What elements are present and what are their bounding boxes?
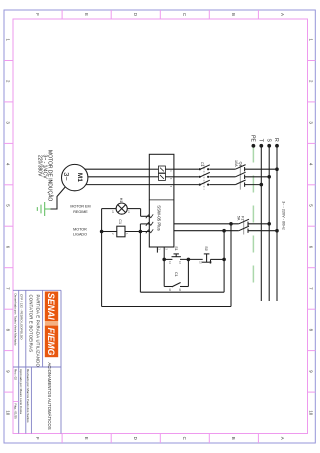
pushbutton S1 (NO): [172, 254, 181, 257]
svg-text:21: 21: [209, 261, 212, 264]
svg-text:E: E: [84, 13, 89, 16]
lamp H1: [116, 203, 127, 214]
digital input terminal mark: [146, 222, 153, 226]
wire phase R through box: [165, 168, 174, 170]
svg-text:C1: C1: [200, 162, 204, 167]
coil C1: [117, 226, 125, 237]
svg-text:3~ - 1/4CV: 3~ - 1/4CV: [42, 155, 48, 180]
svg-text:MOTOR EM: MOTOR EM: [70, 205, 90, 209]
motor M1: [62, 164, 88, 190]
wire F1-S to soft starter supply: [174, 223, 239, 225]
switch F1 pole: [239, 219, 249, 226]
svg-text:3: 3: [309, 121, 314, 124]
ground symbol: [37, 202, 50, 216]
wire S0 to S1: [180, 258, 203, 260]
svg-text:A: A: [280, 13, 285, 16]
svg-text:LIGADO: LIGADO: [73, 233, 87, 237]
SENAI FIEMG logo: [45, 292, 58, 358]
svg-text:6: 6: [5, 246, 10, 249]
wire starter to motor V: [88, 176, 150, 178]
node tap S to F1: [267, 222, 271, 226]
svg-text:22: 22: [198, 261, 201, 264]
svg-text:1: 1: [158, 248, 162, 250]
svg-text:1: 1: [169, 170, 172, 172]
svg-text:SENAI: SENAI: [46, 293, 56, 320]
svg-text:220/380V: 220/380V: [37, 155, 43, 177]
svg-text:13: 13: [178, 261, 181, 264]
svg-text:E: E: [84, 437, 89, 440]
wire Q1 to C1: [209, 184, 235, 186]
svg-text:REGIME: REGIME: [73, 210, 88, 214]
switch F1 linkage: [243, 220, 245, 235]
wire DI1 stub down: [141, 215, 150, 217]
wire starter to motor U: [85, 168, 150, 170]
svg-text:Revisado por: Marcos Paulo dos: Revisado por: Marcos Paulo dos Santos: [26, 369, 30, 423]
svg-text:2: 2: [111, 233, 115, 235]
node start of button branch: [222, 258, 226, 262]
svg-text:9: 9: [5, 370, 10, 373]
pin labels S1: [168, 261, 181, 264]
wire lamp top: [127, 208, 140, 210]
svg-text:10: 10: [5, 410, 10, 415]
svg-text:D: D: [133, 437, 138, 440]
svg-text:3: 3: [169, 178, 172, 180]
wire phase S: [268, 146, 270, 302]
contactor C1 linkage (dashed): [203, 165, 205, 190]
svg-text:6: 6: [309, 246, 314, 249]
wire F1-R to soft starter supply: [174, 230, 239, 232]
wire C1 aux branch bottom: [163, 259, 165, 286]
wire T down to Q1: [245, 184, 262, 186]
svg-text:Pág.: 01/25: Pág.: 01/25: [13, 404, 17, 420]
svg-text:1: 1: [5, 38, 10, 41]
node PE terminal: [252, 144, 256, 148]
svg-text:3~: 3~: [62, 172, 71, 180]
label motor data: [37, 150, 54, 201]
svg-text:10A: 10A: [234, 160, 238, 167]
svg-text:S0: S0: [204, 246, 208, 251]
svg-text:M1: M1: [76, 173, 83, 182]
contact C1 auxiliary (NO): [172, 283, 181, 287]
wire S down to Q1: [245, 176, 270, 178]
svg-text:C: C: [182, 437, 187, 440]
contactor C1 main contact: [199, 172, 210, 178]
wire S1 to pin3 junction: [164, 258, 172, 260]
svg-text:4: 4: [5, 163, 10, 166]
pin labels S0: [198, 261, 211, 264]
svg-text:CFP / 132 - PEDRO LEOPOLDO: CFP / 132 - PEDRO LEOPOLDO: [20, 294, 24, 340]
node R terminal: [275, 144, 279, 148]
wire lamp bottom: [102, 208, 117, 210]
wire phase R: [276, 146, 278, 302]
node branch to C1 aux (top): [187, 258, 191, 262]
svg-text:Rev.: 02: Rev.: 02: [13, 369, 17, 380]
wire R down to Q1: [245, 168, 277, 170]
svg-text:A: A: [280, 437, 285, 440]
svg-text:B: B: [231, 437, 236, 440]
wire S-rail down right side: [102, 306, 231, 308]
svg-text:9: 9: [309, 370, 314, 373]
node T terminal: [259, 144, 263, 148]
wire soft starter pin 3 to branch: [163, 247, 165, 259]
wire C1 to soft starter: [174, 168, 199, 170]
svg-text:S: S: [265, 138, 271, 142]
svg-text:7: 7: [5, 287, 10, 290]
svg-text:5: 5: [309, 204, 314, 207]
svg-text:14: 14: [168, 261, 171, 264]
wire starter to motor W: [86, 184, 150, 186]
wire C1 aux branch right, upper: [180, 286, 188, 288]
contactor C1 main contact: [199, 180, 210, 186]
svg-text:H1: H1: [119, 198, 123, 203]
svg-text:2: 2: [5, 80, 10, 83]
thyristor symbol 1: [159, 166, 166, 173]
svg-text:C: C: [182, 13, 187, 16]
wire jog DI1 to lamp: [140, 209, 142, 217]
svg-text:FIEMG: FIEMG: [46, 328, 56, 356]
svg-text:10: 10: [309, 410, 314, 415]
wire phase T through box: [149, 184, 174, 186]
node tap T to Q1: [260, 183, 264, 187]
ruler letters A-F: [35, 13, 285, 440]
svg-text:Q1: Q1: [238, 162, 242, 167]
node tap R to F1: [275, 229, 279, 233]
svg-text:D: D: [133, 13, 138, 16]
node branch to C1 aux (bottom): [162, 258, 166, 262]
wire C1 to soft starter: [174, 184, 199, 186]
wire branch down to S0: [211, 258, 225, 260]
pin labels C1 aux: [168, 288, 181, 291]
node coil drop junction: [139, 230, 143, 234]
svg-text:F1: F1: [241, 216, 245, 220]
wire S-rail horizontal: [230, 224, 232, 307]
title block outline: [13, 290, 61, 433]
svg-text:PARTIDA E PARADA UTILIZANDO: PARTIDA E PARADA UTILIZANDO: [35, 295, 40, 368]
svg-text:F: F: [35, 437, 40, 440]
soft starter U1 SSW-05 box: [149, 154, 174, 247]
wire DI3 stub to coil: [125, 231, 149, 233]
switch Q1 pole: [235, 180, 245, 187]
wire C1 aux branch top: [187, 259, 189, 286]
wire R-rail horizontal: [223, 231, 225, 293]
svg-text:C1: C1: [174, 272, 178, 277]
wire phase T: [260, 146, 262, 302]
title block page cell divider: [13, 401, 19, 403]
svg-text:5: 5: [169, 186, 172, 188]
wire Q1 to C1: [209, 176, 235, 178]
wire Q1 to C1: [209, 168, 235, 170]
node S terminal: [267, 144, 271, 148]
node R-rail junction: [222, 229, 226, 233]
node coil bottom junction: [100, 230, 104, 234]
svg-text:1: 1: [309, 38, 314, 41]
svg-text:x1: x1: [127, 210, 131, 213]
svg-text:C1: C1: [118, 219, 122, 224]
wire S down to F1: [248, 223, 269, 225]
svg-text:5A: 5A: [236, 216, 240, 221]
svg-text:7: 7: [309, 287, 314, 290]
svg-text:Desenhado por: Tadeu Vieira Ma: Desenhado por: Tadeu Vieira Machado: [13, 294, 17, 346]
svg-text:R: R: [273, 138, 279, 142]
svg-text:B: B: [231, 13, 236, 16]
wire phase S through box: [165, 176, 174, 178]
wire R down to F1: [248, 230, 277, 232]
svg-text:3: 3: [5, 121, 10, 124]
wire PE (green dashed): [252, 146, 254, 295]
wire R-rail down: [140, 291, 224, 293]
svg-text:2: 2: [309, 80, 314, 83]
soft starter internal divider: [149, 199, 174, 201]
svg-text:CONTATOR E BOTOEIRAS: CONTATOR E BOTOEIRAS: [28, 295, 33, 353]
wire R-rail return to DI common: [139, 224, 141, 292]
digital input terminal mark: [146, 214, 153, 218]
node tap R to Q1: [275, 167, 279, 171]
wire DI common stub up to soft starter: [140, 223, 149, 225]
svg-text:Aprovado por: Mauro Lúcio Cost: Aprovado por: Mauro Lúcio Costa: [19, 369, 23, 414]
svg-text:MOTOR DE INDUÇÃO: MOTOR DE INDUÇÃO: [47, 150, 54, 201]
wire coil bottom: [102, 231, 117, 233]
svg-text:44: 44: [168, 288, 171, 291]
svg-text:3~ - 220V - 60Hz: 3~ - 220V - 60Hz: [282, 201, 286, 230]
svg-text:MOTOR: MOTOR: [73, 227, 87, 231]
svg-text:PE: PE: [250, 135, 256, 142]
switch F1 pole: [239, 226, 249, 233]
contactor C1 main contact: [199, 165, 210, 170]
thyristor symbol 2: [159, 173, 166, 180]
svg-text:5: 5: [5, 204, 10, 207]
switch Q1 pole: [235, 165, 245, 172]
svg-text:3: 3: [164, 248, 168, 250]
node tap S to Q1: [267, 175, 271, 179]
node S-rail junction: [229, 222, 233, 226]
svg-text:F: F: [35, 13, 40, 16]
wire C1 to soft starter: [174, 176, 199, 178]
switch Q1 pole: [235, 172, 245, 179]
pin labels phase inputs: [169, 170, 172, 187]
wire motor PE diagonal: [51, 187, 66, 209]
svg-text:4: 4: [309, 163, 314, 166]
wire C1 aux branch right, lower: [164, 286, 172, 288]
switch Q1 linkage: [239, 165, 241, 190]
wire soft starter pin 1 stub: [156, 247, 158, 253]
svg-text:T: T: [258, 139, 264, 142]
svg-text:43: 43: [178, 288, 181, 291]
svg-text:x2: x2: [111, 210, 115, 213]
svg-text:8: 8: [309, 329, 314, 332]
svg-text:ACIONAMENTOS AUTOMÁTICOS: ACIONAMENTOS AUTOMÁTICOS: [47, 362, 52, 429]
digital input terminal mark: [146, 229, 153, 233]
svg-text:8: 8: [5, 329, 10, 332]
pushbutton S0 (NC): [202, 254, 212, 264]
wire bottom rail: [101, 209, 103, 307]
svg-text:SSW-05 Plus: SSW-05 Plus: [156, 205, 161, 230]
